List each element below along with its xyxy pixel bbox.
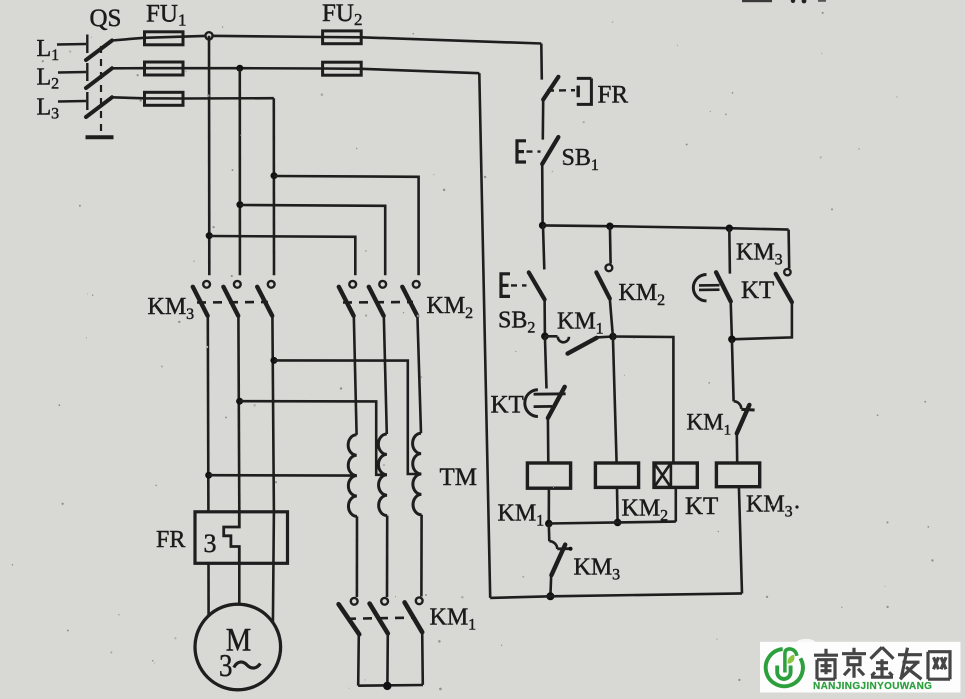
contact KM3 NO bottom xyxy=(549,524,620,596)
linkage KM3 main xyxy=(148,294,269,323)
motor M 3-phase xyxy=(195,604,281,690)
wire coil KM2 bottom xyxy=(616,487,619,522)
pushbutton SB1 stop xyxy=(517,137,599,174)
svg-text:3: 3 xyxy=(219,647,233,683)
contact KM2 aux NO xyxy=(596,226,665,336)
svg-text:FR: FR xyxy=(156,527,185,553)
svg-text:NANJINGJINYOUWANG: NANJINGJINYOUWANG xyxy=(813,681,932,692)
node B junction xyxy=(541,333,549,341)
contact KM1 NC interlock xyxy=(687,339,755,438)
node junction phase B tap xyxy=(236,398,243,405)
wire KT contact to coil KM1 xyxy=(547,418,550,463)
wire phase B to KM2 pole2 xyxy=(240,205,385,275)
disconnect switch QS xyxy=(57,5,121,137)
fuse FU1 pole1 xyxy=(145,1,187,45)
wire FR to SB1 xyxy=(541,100,544,140)
pushbutton SB2 start xyxy=(498,225,545,336)
wire control feed from L1 xyxy=(540,44,543,80)
node junction KM2 branch xyxy=(606,223,613,230)
wire phase L3 to fuse xyxy=(112,97,274,98)
contact KT NO delayed closing xyxy=(693,228,774,339)
svg-text:KT: KT xyxy=(491,392,524,419)
coil KM1 xyxy=(498,463,571,530)
svg-text:QS: QS xyxy=(90,5,122,32)
node junction KM3 branch xyxy=(728,336,736,344)
wire phase C vertical xyxy=(272,98,275,275)
contactor KM1 main pole3 xyxy=(405,597,423,684)
coil KT xyxy=(654,463,718,520)
wire FR to motor lead2 xyxy=(238,563,241,604)
wire SB1 to node A xyxy=(541,164,544,225)
wire FR to motor lead3 xyxy=(273,512,274,624)
wire coil KM1 bottom xyxy=(547,488,550,523)
node junction bottom rail xyxy=(546,592,554,600)
coil KM3 xyxy=(716,463,798,521)
node L1 xyxy=(37,36,60,64)
node junction phase B to KM2 xyxy=(236,201,243,208)
svg-text:FR: FR xyxy=(598,82,629,109)
node C junction xyxy=(609,333,617,341)
node A junction xyxy=(539,222,546,229)
autotransformer TM winding2 xyxy=(378,434,387,516)
fuse FU2 pole1 xyxy=(322,0,362,44)
fuse FU1 pole2 xyxy=(145,62,184,75)
contactor KM2 main pole3 xyxy=(402,281,421,433)
contactor KM2 main pole1 xyxy=(339,281,357,435)
contactor KM3 main pole1 xyxy=(193,281,210,512)
wire TM winding3 to KM1 xyxy=(420,515,423,597)
contactor KM1 main pole1 xyxy=(339,598,360,686)
node junction KT branch xyxy=(726,225,733,232)
node junction phase C tap xyxy=(270,357,277,364)
linkage KM2 main xyxy=(343,293,473,322)
wire control rail bottom xyxy=(490,593,742,598)
fuse FU2 pole2 xyxy=(323,62,362,75)
wire coil bottoms tie xyxy=(549,522,676,524)
wire KM1 interlock to coil KM3 xyxy=(735,433,738,463)
svg-text:KT: KT xyxy=(741,277,774,304)
wire TM winding2 tap to phase B xyxy=(240,401,387,475)
autotransformer TM winding3 xyxy=(413,433,477,515)
node junction phase A to KM2 xyxy=(206,232,213,239)
wire TM winding1 tap to phase A xyxy=(209,474,357,477)
node junction L2 after FU1 xyxy=(236,65,243,72)
wire phase C to KM2 pole3 xyxy=(274,176,419,275)
contactor KM2 main pole2 xyxy=(369,281,387,434)
thermal relay FR heater box xyxy=(156,512,288,564)
node junction star point xyxy=(383,682,391,690)
wire TM winding3 tap to phase C xyxy=(274,360,421,474)
node junction coil KM2 bottom xyxy=(614,519,622,527)
contact KM1 self-hold NO xyxy=(545,309,613,354)
svg-text:TM: TM xyxy=(440,464,478,491)
wire phase A vertical xyxy=(208,36,211,275)
wire control rail left xyxy=(479,73,490,598)
coil KM2 xyxy=(595,463,668,525)
linkage KM1 main xyxy=(347,605,476,634)
node L3 xyxy=(37,95,60,123)
contact KT NC delayed opening xyxy=(491,336,566,418)
wire phase B vertical xyxy=(239,68,242,275)
wire node C to coil KT xyxy=(613,337,674,463)
wire control rail top xyxy=(543,225,789,229)
wire node C to coil KM2 xyxy=(613,337,617,463)
svg-text:3: 3 xyxy=(204,529,217,558)
node junction coil KM1 bottom xyxy=(545,520,553,528)
node junction phase A tap xyxy=(205,472,212,479)
wire KM1 star point xyxy=(358,684,423,687)
contact KM3 aux NO top right xyxy=(732,230,792,340)
fuse FU1 pole3 xyxy=(145,92,184,105)
wire SB2 to node B xyxy=(543,299,546,336)
wire coil KM3 bottom return xyxy=(739,487,742,594)
thermal relay FR NC contact xyxy=(543,77,628,109)
node junction phase C to KM2 xyxy=(271,172,278,179)
wire TM winding2 to KM1 xyxy=(386,516,389,597)
autotransformer TM winding1 xyxy=(348,435,357,517)
wire coil KT bottom xyxy=(674,487,677,521)
node L2 xyxy=(37,65,60,93)
wire phase A to KM2 pole1 xyxy=(209,236,355,275)
wire phase L1 to fuses xyxy=(112,36,541,44)
node junction L1 after FU1 xyxy=(205,32,212,39)
contactor KM1 main pole2 xyxy=(370,598,388,686)
wire FR to motor lead1 xyxy=(207,563,210,615)
svg-text:KT: KT xyxy=(685,493,718,520)
watermark logo xyxy=(760,639,961,693)
wire TM winding1 to KM1 xyxy=(356,516,359,597)
wire phase L2 to fuses xyxy=(112,68,479,73)
contactor KM3 main pole3 xyxy=(257,281,274,512)
contactor KM3 main pole2 xyxy=(223,281,240,512)
